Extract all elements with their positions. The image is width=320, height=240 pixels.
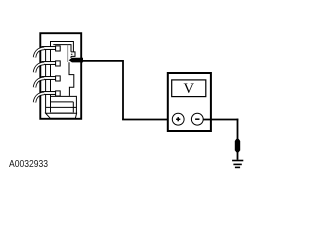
- wire: corner to voltmeter +: [122, 119, 172, 121]
- svg-text:V: V: [184, 81, 195, 97]
- terminal pin 3: [42, 76, 60, 81]
- wire: down to ground: [237, 119, 239, 160]
- harness wire at pin 4: [35, 93, 45, 102]
- body inner lining: [53, 45, 71, 58]
- svg-text:A0032933: A0032933: [9, 158, 48, 170]
- left wall outer line: [45, 46, 47, 113]
- cavity edge (gray): [67, 45, 69, 62]
- body right wall below tap: [69, 62, 74, 96]
- harness wire at pin 3: [35, 78, 45, 87]
- terminal pin 1: [42, 46, 60, 51]
- wire: down leg: [122, 60, 124, 120]
- wire: voltmeter - to right corner: [203, 119, 238, 121]
- wire: tap to corner: [83, 60, 123, 62]
- voltmeter - terminal: [191, 113, 203, 125]
- probe tap terminal (black) on pin 2 row: [69, 58, 83, 63]
- connector body housing: [46, 42, 77, 114]
- latch bracket: [71, 52, 75, 57]
- body outer profile: [51, 42, 74, 114]
- voltmeter display window: [172, 80, 206, 97]
- connector base trapezoid: [46, 113, 77, 118]
- body shelf line 1: [50, 101, 73, 103]
- in-line splice (thick black): [235, 139, 240, 152]
- harness wire at pin 1: [35, 48, 45, 57]
- voltmeter U1 case: [168, 73, 211, 131]
- body shelf line 2: [46, 106, 77, 108]
- terminal pin 4: [42, 91, 60, 96]
- harness wire at pin 2: [35, 63, 45, 72]
- body step shelf: [50, 95, 76, 97]
- voltmeter + terminal: [172, 113, 184, 125]
- body lower right wall: [73, 96, 76, 113]
- connector J1 outer shell: [40, 33, 81, 119]
- terminal pin 2: [42, 61, 60, 66]
- ground G1: [232, 161, 243, 168]
- body seam (gray): [50, 112, 74, 114]
